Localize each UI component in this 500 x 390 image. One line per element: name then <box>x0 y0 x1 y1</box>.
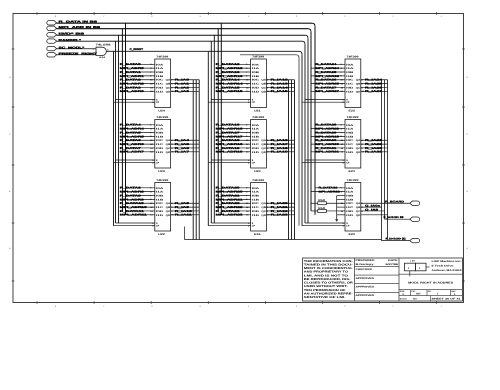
wire S select to E15 <box>211 222 250 224</box>
svg-text:APPROVED: APPROVED <box>356 294 375 297</box>
wire FREEZE_RIGHT into gate <box>57 54 97 56</box>
svg-text:150: 150 <box>318 207 327 210</box>
svg-text:MPI_ADR7: MPI_ADR7 <box>120 151 145 154</box>
svg-text:I1D: I1D <box>156 214 164 217</box>
svg-text:I0D: I0D <box>346 86 354 89</box>
IC E21 74F399 quad 2-port register <box>342 116 360 173</box>
svg-text:QD: QD <box>166 214 171 217</box>
svg-text:SENTATIVE OF LMI.: SENTATIVE OF LMI. <box>304 296 346 299</box>
wire CP clock to E15 <box>208 225 250 227</box>
svg-text:QA: QA <box>166 79 171 82</box>
svg-text:I0B: I0B <box>156 71 164 74</box>
svg-text:QB: QB <box>356 83 361 86</box>
svg-text:R_DATA23: R_DATA23 <box>216 210 241 213</box>
svg-text:R_IA15: R_IA15 <box>271 90 289 93</box>
wire CP clock to E21 <box>302 162 345 164</box>
svg-text:QA: QA <box>166 139 171 142</box>
svg-text:QD: QD <box>261 90 266 93</box>
svg-text:QC: QC <box>356 147 361 150</box>
wire CP clock to E22 <box>302 101 345 103</box>
svg-text:R_IA3: R_IA3 <box>175 90 190 93</box>
wire output to R_BOARD connector <box>361 201 410 205</box>
svg-text:I1C: I1C <box>346 83 354 86</box>
svg-text:BE REPRODUCED, DIS-: BE REPRODUCED, DIS- <box>304 278 351 281</box>
svg-text:MPI_ADR22: MPI_ADR22 <box>216 206 244 209</box>
IC U21 74F399 quad 2-port register <box>248 55 266 112</box>
svg-text:R_IA24: R_IA24 <box>365 79 383 82</box>
svg-text:MPI_ADR24: MPI_ADR24 <box>316 67 340 70</box>
svg-text:R_DATA8: R_DATA8 <box>120 187 142 190</box>
wire RAMSEL* drop col2 <box>210 41 212 223</box>
svg-text:I0D: I0D <box>252 86 260 89</box>
svg-text:MPI_ADR17: MPI_ADR17 <box>216 135 244 138</box>
svg-text:74F399: 74F399 <box>252 55 265 58</box>
zone labels <box>9 15 469 308</box>
wire output R_IA2 <box>171 86 200 89</box>
wire I3/D* drop col1 <box>118 35 120 223</box>
wire output R_IA23 <box>266 214 294 217</box>
svg-text:74F399: 74F399 <box>252 116 265 119</box>
wire output R_IA20 <box>266 202 294 205</box>
wire input R_DATA32 <box>315 187 345 190</box>
wire input MPI_ADR25 <box>311 75 345 78</box>
svg-text:I1B: I1B <box>346 75 354 78</box>
svg-text:CLOSED TO OTHERS, OR: CLOSED TO OTHERS, OR <box>304 282 353 285</box>
svg-text:SIZE: SIZE <box>400 290 405 293</box>
svg-text:J: J <box>441 15 442 18</box>
svg-text:150: 150 <box>318 199 327 202</box>
wire output R_IA14 <box>266 86 294 89</box>
svg-text:I0B: I0B <box>252 71 260 74</box>
wire output R_IA7 <box>171 151 200 154</box>
wire C_RIGHT drop col1 <box>113 51 115 225</box>
svg-text:R_DATA32: R_DATA32 <box>319 187 339 190</box>
svg-text:CP: CP <box>252 225 256 228</box>
wire S select to U24 <box>116 99 155 101</box>
svg-text:I0B: I0B <box>252 195 260 198</box>
svg-text:I0A: I0A <box>346 187 354 190</box>
svg-text:I1B: I1B <box>346 135 354 138</box>
svg-text:L M I: L M I <box>410 259 415 262</box>
wire input MPI_ADR8 <box>120 190 155 193</box>
svg-text:QC: QC <box>356 86 361 89</box>
svg-text:QB: QB <box>261 206 266 209</box>
svg-text:R_IA11: R_IA11 <box>175 214 193 217</box>
wire input MPI_ADR12 <box>216 67 251 70</box>
svg-text:R_DATA2: R_DATA2 <box>120 79 142 82</box>
wire input MPI_ADR17 <box>216 135 251 138</box>
svg-text:I0D: I0D <box>156 86 164 89</box>
svg-text:MPI_ADR6: MPI_ADR6 <box>120 143 145 146</box>
svg-text:I0D: I0D <box>252 210 260 213</box>
svg-text:MPI_ADR25: MPI_ADR25 <box>316 75 340 78</box>
svg-text:I1A: I1A <box>252 67 260 70</box>
wire output R_IA16 <box>266 139 294 142</box>
svg-text:I0A: I0A <box>156 187 164 190</box>
wire input R_DATA2 <box>120 79 155 82</box>
svg-text:I0B: I0B <box>156 132 164 135</box>
svg-text:QC: QC <box>166 147 171 150</box>
svg-text:R_DATA31: R_DATA31 <box>316 147 338 150</box>
svg-text:QA: QA <box>356 79 361 82</box>
svg-text:R_IA21: R_IA21 <box>271 206 289 209</box>
svg-text:I1C: I1C <box>156 83 164 86</box>
svg-text:R_IA20: R_IA20 <box>271 202 289 205</box>
svg-text:I0D: I0D <box>156 210 164 213</box>
wire input R_DATA6 <box>120 139 155 142</box>
svg-text:I1C: I1C <box>156 206 164 209</box>
wire input R_DATA11 <box>120 210 155 213</box>
svg-text:MPI_ADR32: MPI_ADR32 <box>319 191 341 194</box>
wire output R_IA8 <box>171 202 200 205</box>
svg-text:E22: E22 <box>349 109 356 112</box>
svg-text:CP: CP <box>346 162 350 165</box>
wire output row 4 <box>361 214 388 216</box>
wire input MPI_ADR6 <box>120 143 155 146</box>
svg-text:QC: QC <box>166 86 171 89</box>
company logo LMI <box>405 259 430 276</box>
wire input R_DATA26 <box>315 79 345 82</box>
svg-text:CP: CP <box>252 162 256 165</box>
wire output R_IA26 <box>361 86 388 89</box>
wire input MPI_ADR2 <box>120 82 155 85</box>
svg-text:I1C: I1C <box>252 206 260 209</box>
wire C_RIGHT drop col3 <box>299 51 302 225</box>
wire input R_DATA30 <box>315 139 345 142</box>
svg-text:QA: QA <box>261 139 266 142</box>
svg-text:R_IA7: R_IA7 <box>175 151 190 154</box>
svg-text:74F399: 74F399 <box>156 55 169 58</box>
wire CP clock to U24 <box>114 101 155 103</box>
svg-text:I1B: I1B <box>346 198 354 201</box>
wire output R_IA31 <box>361 151 388 154</box>
svg-text:QB: QB <box>166 83 171 86</box>
wire bus MPI_ADR IN horizontal <box>57 28 309 30</box>
IC U24 74F399 quad 2-port register <box>152 55 170 112</box>
wire I3/D* drop col3 <box>305 35 308 223</box>
svg-text:MPI_ADR15: MPI_ADR15 <box>216 90 244 93</box>
svg-text:MPI_ADR21: MPI_ADR21 <box>216 198 244 201</box>
svg-text:J: J <box>441 305 442 308</box>
wire output R_IA24 <box>361 79 388 82</box>
resistor R2 150 ohm <box>311 207 345 213</box>
input connector RAMSEL* <box>47 39 83 43</box>
wire to R_IA<0:34> B8 connector <box>384 216 410 219</box>
svg-text:R_DATA20: R_DATA20 <box>216 187 241 190</box>
wire output R_IA11 <box>171 214 200 217</box>
svg-text:R_DATA22: R_DATA22 <box>216 202 241 205</box>
svg-text:I1B: I1B <box>252 135 260 138</box>
svg-text:R_IA22: R_IA22 <box>271 210 289 213</box>
IC E20 74F399 quad 2-port register <box>342 179 360 236</box>
svg-text:R_IA18: R_IA18 <box>271 147 289 150</box>
svg-text:QA: QA <box>261 202 266 205</box>
wire output R_IA3 <box>171 90 200 93</box>
svg-text:E20: E20 <box>349 233 356 236</box>
svg-text:U21: U21 <box>254 109 261 112</box>
svg-text:I0A: I0A <box>252 63 260 66</box>
wire input MPI_ADR30 <box>311 143 345 146</box>
svg-text:QB: QB <box>166 206 171 209</box>
svg-text:DATE: DATE <box>388 259 398 262</box>
svg-text:R_IA26: R_IA26 <box>365 86 383 89</box>
wire input MPI_ADR10 <box>120 206 155 209</box>
svg-text:QD: QD <box>356 151 361 154</box>
svg-text:74F399: 74F399 <box>156 179 169 182</box>
wire output R_IA5 <box>171 143 200 146</box>
wire input MPI_ADR11 <box>120 214 155 217</box>
wire input R_DATA13 <box>216 71 251 74</box>
wire output R_IA28 <box>361 139 388 142</box>
wire output R_IA4 <box>171 139 200 142</box>
svg-text:I0D: I0D <box>346 210 354 213</box>
svg-text:U23: U23 <box>158 170 165 173</box>
wire R_DATA bus drop col1 <box>125 23 127 215</box>
svg-text:6 Tech Drive: 6 Tech Drive <box>432 264 455 267</box>
svg-text:R_IA4: R_IA4 <box>175 139 190 142</box>
wire output bus verticals col2 <box>289 80 295 240</box>
svg-text:I1C: I1C <box>252 143 260 146</box>
wire I3/D* drop col2 <box>213 35 215 223</box>
svg-text:QA: QA <box>356 139 361 142</box>
svg-text:MPI_ADR26: MPI_ADR26 <box>316 83 340 86</box>
svg-text:MPI_ADR13: MPI_ADR13 <box>216 75 244 78</box>
svg-text:CP: CP <box>346 225 350 228</box>
svg-text:R_DATA15: R_DATA15 <box>216 86 241 89</box>
title block outline <box>303 258 463 301</box>
title block size/no/rev row <box>399 290 462 297</box>
wire output R_IA25 <box>361 82 388 85</box>
svg-text:R_IA2: R_IA2 <box>175 86 190 89</box>
wire output R_IA6 <box>171 147 200 150</box>
svg-text:R_DATA30: R_DATA30 <box>316 139 338 142</box>
wire input R_DATA1 <box>120 71 155 74</box>
svg-text:I1D: I1D <box>252 214 260 217</box>
svg-text:MPI_ADR1: MPI_ADR1 <box>120 75 145 78</box>
svg-text:QC: QC <box>261 147 266 150</box>
input connector I3/D* B8 <box>47 33 86 37</box>
wire output R_IA27 <box>361 90 388 93</box>
wire output R_IA12 <box>266 79 294 82</box>
svg-text:I1A: I1A <box>156 191 164 194</box>
svg-text:I0B: I0B <box>346 71 354 74</box>
svg-text:MODL RIGHT IH ADDRES: MODL RIGHT IH ADDRES <box>408 282 453 285</box>
svg-text:MPI_ADR5: MPI_ADR5 <box>120 135 145 138</box>
svg-text:74LS08: 74LS08 <box>96 44 112 47</box>
svg-text:74F399: 74F399 <box>347 116 360 119</box>
wire input MPI_ADR18 <box>216 143 251 146</box>
svg-text:I1C: I1C <box>252 83 260 86</box>
wire input MPI_ADR20 <box>216 190 251 193</box>
svg-text:TAINED IN THIS DOCU-: TAINED IN THIS DOCU- <box>304 263 353 266</box>
svg-text:MPI_ADR28: MPI_ADR28 <box>316 128 340 131</box>
wire output R_IA13 <box>266 82 294 85</box>
svg-text:R_DATA19: R_DATA19 <box>216 147 241 150</box>
svg-text:I1A: I1A <box>156 67 164 70</box>
input connector R_DATA IN B8 <box>47 21 98 25</box>
wire output bus verticals col3 <box>382 80 388 241</box>
svg-text:I1B: I1B <box>156 198 164 201</box>
wire input R_DATA25 <box>315 71 345 74</box>
svg-text:U24: U24 <box>158 109 165 112</box>
wire input R_DATA31 <box>315 147 345 150</box>
svg-text:MPI_ADR23: MPI_ADR23 <box>216 214 244 217</box>
wire bus RAMSEL* horizontal <box>57 40 303 42</box>
wire S select to E20 <box>305 222 345 224</box>
svg-text:MPI_ADR4: MPI_ADR4 <box>120 128 145 131</box>
wire input MPI_ADR19 <box>216 151 251 154</box>
svg-text:R_IA28: R_IA28 <box>365 139 383 142</box>
svg-text:I0C: I0C <box>346 79 354 82</box>
svg-text:R_IA25: R_IA25 <box>365 83 383 86</box>
wire input R_DATA27 <box>315 86 345 89</box>
output connector R_IA<0:34> [k] <box>410 238 420 242</box>
wire input R_DATA21 <box>216 194 251 197</box>
svg-text:R_DATA24: R_DATA24 <box>316 63 338 66</box>
svg-text:I0A: I0A <box>252 187 260 190</box>
svg-text:R_IA8: R_IA8 <box>175 202 190 205</box>
svg-text:I1D: I1D <box>156 151 164 154</box>
svg-text:I0C: I0C <box>346 202 354 205</box>
svg-text:E21: E21 <box>349 170 356 173</box>
wire input R_DATA17 <box>216 131 251 134</box>
svg-text:I1C: I1C <box>156 143 164 146</box>
wire CP clock to U21 <box>208 101 250 103</box>
svg-text:QD: QD <box>356 214 361 217</box>
svg-text:R_DATA4: R_DATA4 <box>120 124 142 127</box>
wire output R_IA0 <box>171 79 200 82</box>
svg-text:R_IA29: R_IA29 <box>365 143 383 146</box>
svg-text:QA: QA <box>166 202 171 205</box>
wire input R_DATA9 <box>120 194 155 197</box>
svg-text:R_DATA13: R_DATA13 <box>216 71 241 74</box>
svg-text:R_DATA18: R_DATA18 <box>216 139 241 142</box>
wire S select to U22 <box>116 222 155 224</box>
wire input MPI_ADR29 <box>311 135 345 138</box>
svg-text:SHEET 30 OF 41: SHEET 30 OF 41 <box>432 298 462 301</box>
wire input R_DATA16 <box>216 124 251 127</box>
svg-text:74F399: 74F399 <box>347 55 360 58</box>
svg-text:R_DATA27: R_DATA27 <box>316 86 338 89</box>
net label C_RIGHT <box>130 48 144 51</box>
svg-text:R_DATA0: R_DATA0 <box>120 63 142 66</box>
svg-text:I1D: I1D <box>346 90 354 93</box>
wire output R_IA21 <box>266 206 294 209</box>
IC U22 74F399 quad 2-port register <box>152 179 170 236</box>
svg-text:I1A: I1A <box>346 128 354 131</box>
wire R_DATA bus drop col2 <box>220 23 222 215</box>
wire input MPI_ADR9 <box>120 198 155 201</box>
title block legal text <box>304 260 354 299</box>
svg-text:AND PROPRIETARY TO: AND PROPRIETARY TO <box>304 271 348 274</box>
svg-text:74F399: 74F399 <box>347 179 360 182</box>
wire input MPI_ADR3 <box>120 90 155 93</box>
svg-text:6/27/86: 6/27/86 <box>386 263 400 266</box>
wire MPI_ADR bus drop col3 <box>308 29 311 211</box>
svg-text:I1B: I1B <box>156 135 164 138</box>
svg-text:I1D: I1D <box>252 151 260 154</box>
svg-text:I0C: I0C <box>252 202 260 205</box>
output connector R_BOARD <box>410 201 420 205</box>
svg-text:I0C: I0C <box>156 202 164 205</box>
wire input R_DATA7 <box>120 147 155 150</box>
svg-text:R_IA10: R_IA10 <box>175 210 193 213</box>
wire MPI_ADR bus drop col2 <box>217 29 219 211</box>
wire input MPI_ADR7 <box>120 151 155 154</box>
svg-text:CHECKED: CHECKED <box>356 268 373 271</box>
svg-text:CP: CP <box>252 101 256 104</box>
svg-text:I1D: I1D <box>156 90 164 93</box>
wire R_DATA bus drop col3 <box>312 23 315 215</box>
wire input MPI_ADR32 <box>311 190 345 193</box>
wire input MPI_ADR0 <box>120 67 155 70</box>
svg-text:I0B: I0B <box>346 132 354 135</box>
wire input R_DATA23 <box>216 210 251 213</box>
svg-text:QD: QD <box>166 151 171 154</box>
wire input R_DATA22 <box>216 202 251 205</box>
svg-text:MPI_ADR16: MPI_ADR16 <box>216 128 244 131</box>
svg-text:I0C: I0C <box>346 139 354 142</box>
svg-text:I1B: I1B <box>252 198 260 201</box>
wire input MPI_ADR1 <box>120 75 155 78</box>
svg-text:SCALE: SCALE <box>400 298 408 301</box>
wire SC_MODL* into gate <box>57 48 97 50</box>
wire input MPI_ADR22 <box>216 206 251 209</box>
svg-text:I1C: I1C <box>346 143 354 146</box>
svg-text:QD: QD <box>261 151 266 154</box>
wire input R_DATA15 <box>216 86 251 89</box>
wire input MPI_ADR26 <box>311 82 345 85</box>
output connector R_IA<0:34> B8 <box>410 217 420 221</box>
svg-text:C_RIGHT: C_RIGHT <box>130 48 144 51</box>
wire input MPI_ADR5 <box>120 135 155 138</box>
svg-text:QC: QC <box>166 210 171 213</box>
svg-text:I1A: I1A <box>156 128 164 131</box>
wire RAMSEL* drop col1 <box>115 41 117 223</box>
svg-text:MPI_ADR18: MPI_ADR18 <box>216 143 244 146</box>
svg-text:R_DATA5: R_DATA5 <box>120 131 142 134</box>
wire input R_DATA19 <box>216 147 251 150</box>
input connector MPI_ADR IN B8 <box>47 26 101 30</box>
svg-text:R_DATA29: R_DATA29 <box>316 131 338 134</box>
svg-text:R_DATA1: R_DATA1 <box>120 71 142 74</box>
AND gate A24 74LS08 <box>93 44 112 59</box>
svg-text:R_DATA28: R_DATA28 <box>316 124 338 127</box>
svg-text:74F399: 74F399 <box>252 179 265 182</box>
company address <box>432 260 463 272</box>
input connector FREEZE_RIGHT <box>47 53 98 57</box>
svg-text:R_DATA17: R_DATA17 <box>216 131 241 134</box>
svg-text:R_IA9: R_IA9 <box>175 206 190 209</box>
wire CP clock to U23 <box>114 162 155 164</box>
svg-text:I0C: I0C <box>252 79 260 82</box>
svg-text:E15: E15 <box>254 233 261 236</box>
svg-text:R_DATA7: R_DATA7 <box>120 147 142 150</box>
svg-text:I1A: I1A <box>346 67 354 70</box>
wire tie jumper unused inputs E20 <box>337 196 345 215</box>
svg-text:MPI_ADR20: MPI_ADR20 <box>216 191 244 194</box>
svg-text:QA: QA <box>261 79 266 82</box>
svg-text:R_DATA3: R_DATA3 <box>120 86 142 89</box>
wire output R_IA9 <box>171 206 200 209</box>
IC U23 74F399 quad 2-port register <box>152 116 170 173</box>
input connector SC_MODL* <box>47 46 86 50</box>
wire CP clock to U20 <box>208 162 250 164</box>
svg-text:R_IA23: R_IA23 <box>271 214 289 217</box>
wire input R_DATA18 <box>216 139 251 142</box>
wire output Q_IA8 <box>361 209 385 213</box>
svg-text:I1B: I1B <box>252 75 260 78</box>
